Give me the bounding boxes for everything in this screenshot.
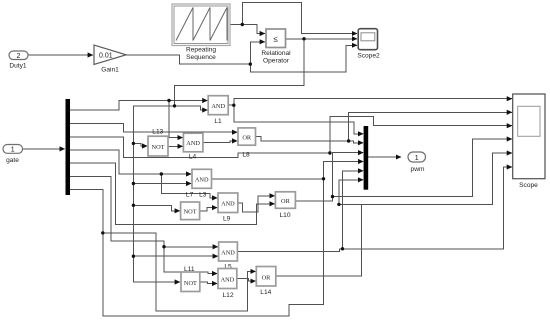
wire OR L10 output to Scope input 5 [296, 139, 512, 201]
wire Relational Operator branch to AND L1 input 2 [175, 106, 208, 110]
wire Relational Operator branch vertical bus at x=133 [133, 106, 179, 282]
wire Gain1 to Scope2 input 3 [250, 45, 357, 72]
node bus junction L5 input [132, 255, 135, 258]
svg-text:Relational: Relational [261, 50, 291, 57]
svg-text:L7: L7 [186, 192, 194, 199]
port Duty1 [9, 51, 28, 70]
node L14 line junction [337, 203, 340, 206]
svg-text:L13: L13 [152, 129, 163, 136]
wire demux output 4 branch to AND L9 input 1 [161, 174, 217, 198]
wire NOT L7 to AND L9 input 2 [200, 208, 217, 211]
port gate [3, 145, 23, 165]
wire Relational Operator output down-left trunk [175, 39, 305, 106]
svg-text:Operator: Operator [263, 57, 290, 64]
wire Repeating Sequence to Scope2 input 1 [242, 2, 357, 33]
svg-text:L11: L11 [184, 266, 195, 273]
wire Gain1 to Relational Operator input 2 [250, 42, 264, 64]
wire branch to NOT L13 input [133, 143, 147, 146]
wire mux output to pwm [368, 156, 401, 158]
wire branch to NOT L7 input [133, 205, 179, 211]
scope Scope [513, 94, 545, 189]
wire demux output 7 to mux input 4 [70, 179, 324, 316]
svg-text:0.01: 0.01 [99, 53, 113, 60]
wire branch to AND L5 input 2 [133, 255, 217, 257]
logic NOT L13 [148, 129, 168, 157]
svg-text:NOT: NOT [184, 280, 197, 287]
svg-text:AND: AND [221, 276, 235, 283]
wire NOT L11 to AND L12 input 2 [200, 282, 217, 284]
svg-text:1: 1 [415, 155, 419, 162]
wire AND L5 output to Scope input 6 [238, 167, 512, 252]
wire NOT L13 to AND L4 input 2 [168, 145, 182, 147]
svg-text:Duty1: Duty1 [9, 63, 27, 70]
source Repeating Sequence [172, 4, 230, 61]
svg-text:L10: L10 [279, 212, 290, 219]
node AND L5 output junction [341, 247, 344, 250]
node bus junction NOT L13 [132, 142, 135, 145]
wire branch to AND L3 input 2 [133, 183, 191, 185]
node demux4 branch junction [160, 172, 163, 175]
svg-text:L14: L14 [260, 289, 271, 296]
wire OR L8 output to mux input 2 [256, 137, 364, 143]
svg-text:gate: gate [6, 157, 19, 164]
svg-text:Sequence: Sequence [186, 54, 216, 61]
node Relational Operator output junction [302, 37, 305, 40]
svg-text:AND: AND [221, 249, 235, 256]
svg-text:OR: OR [281, 198, 291, 205]
wire OR L14 output to mux input 6 [276, 204, 362, 276]
wire AND L12 to OR L14 input 2 [237, 279, 256, 282]
wire AND L1 to mux input 1 [234, 105, 363, 134]
svg-text:Repeating: Repeating [186, 47, 216, 54]
svg-text:Scope: Scope [519, 182, 538, 189]
wire L14 line to Scope input 5 [339, 153, 512, 204]
svg-text:L8: L8 [242, 152, 250, 159]
wire AND L1 output stub [228, 104, 234, 106]
wire Gain1 output trunk [126, 55, 250, 64]
svg-text:L4: L4 [189, 154, 197, 161]
svg-text:AND: AND [211, 103, 225, 110]
wire demux output 7 branch to OR L14 input 1 [103, 233, 256, 311]
logic AND L3 [192, 169, 212, 198]
wire Repeating Sequence to Relational Operator input 1 [230, 25, 265, 34]
wire AND L5 branch to mux input 5 [343, 171, 364, 249]
node mux input 3 junction [328, 151, 331, 154]
wire demux output 1 to AND L1 input 1 [70, 101, 207, 111]
node demux1 branch junction [167, 99, 170, 102]
wire Relational Operator output to Scope2 input 2 [286, 38, 357, 40]
logic AND L4 [183, 133, 203, 160]
svg-text:NOT: NOT [152, 144, 165, 151]
svg-text:2: 2 [17, 53, 21, 60]
logic OR L10 [275, 192, 295, 219]
wire demux output 3 to mux input 3 [70, 116, 512, 157]
svg-text:OR: OR [242, 134, 252, 141]
wire AND L4 to OR L8 input 2 [203, 141, 237, 142]
wire Duty1 to Gain1 [28, 54, 93, 56]
svg-text:AND: AND [195, 177, 209, 184]
logic OR L14 [256, 267, 276, 296]
port pwm [408, 152, 426, 173]
node demux6 branch junction [162, 245, 165, 248]
wire demux output 4 to AND L3 input 1 [70, 150, 191, 174]
logic AND L5 [219, 242, 238, 270]
scope Scope2 [357, 29, 380, 60]
node OR L8 output junction [347, 139, 350, 142]
node Gain1 output junction [249, 62, 252, 65]
svg-text:L12: L12 [222, 292, 233, 299]
wire gate to demux [23, 148, 65, 150]
comparator Relational Operator [261, 29, 291, 64]
node OR L10 output junction [331, 195, 334, 198]
gain Gain1 [94, 45, 126, 74]
wire riser joining L10 line [333, 153, 364, 197]
logic NOT L11 [181, 266, 200, 292]
logic NOT L7 [181, 192, 200, 220]
node AND L1 output junction [232, 104, 235, 107]
node bus junction L3 input [132, 182, 135, 185]
node Repeating Sequence output junction [241, 23, 244, 26]
svg-text:Gain1: Gain1 [101, 67, 119, 74]
svg-text:NOT: NOT [184, 208, 197, 215]
node demux7 branch junction [101, 231, 104, 234]
node relational bus junction at L1 input [173, 104, 176, 107]
wire demux output 2 to OR L8 input 1 [70, 123, 237, 132]
logic AND L9 [218, 193, 238, 223]
svg-text:AND: AND [221, 200, 235, 207]
svg-text:1: 1 [11, 147, 15, 154]
node bus junction NOT L7 [132, 204, 135, 207]
wire OR L8 branch to Scope input 2 [349, 112, 512, 141]
svg-text:OR: OR [262, 274, 272, 281]
svg-text:pwm: pwm [411, 166, 425, 173]
logic AND L12 [218, 269, 237, 299]
svg-text:AND: AND [186, 140, 200, 147]
svg-text:L1: L1 [214, 118, 222, 125]
svg-text:Scope2: Scope2 [357, 53, 380, 60]
logic AND L1 [208, 96, 228, 125]
wire L14 line riser to mux input 6 [339, 180, 363, 205]
svg-text:L3: L3 [199, 192, 207, 199]
logic OR L8 [238, 128, 256, 159]
svg-text:L9: L9 [223, 216, 231, 223]
mux (pwm combiner bar) [364, 126, 369, 190]
wire demux output 1 branch to AND L4 input 1 [169, 101, 183, 138]
node Q path joins L3 line [322, 177, 325, 180]
wire demux output 5 to OR L10 input 2 [70, 163, 275, 224]
demux (gate splitter bar) [66, 99, 71, 195]
wire AND L3 output to Scope input 4 [212, 162, 364, 179]
wire branch to AND L12 input 1 [164, 247, 217, 274]
wire demux output 6 to AND L5 input 1 [70, 176, 218, 246]
svg-text:≤: ≤ [274, 35, 279, 44]
wire AND L9 to OR L10 input 1 [238, 196, 275, 212]
wire AND L1 to Scope input 1 [234, 99, 512, 106]
